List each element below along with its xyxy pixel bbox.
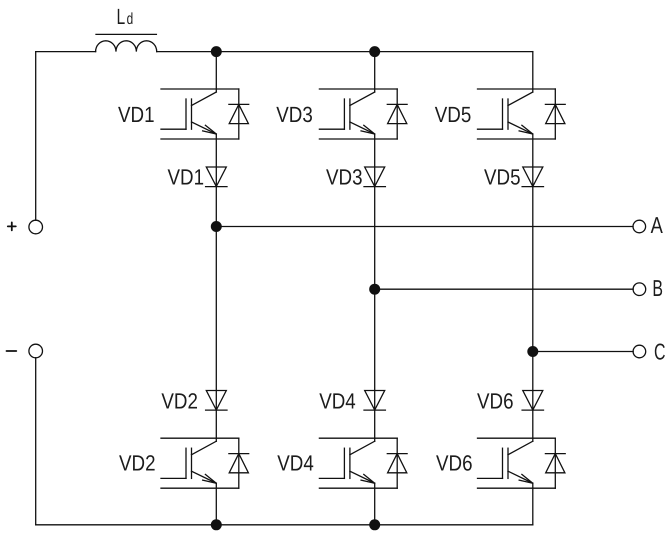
terminal + circle xyxy=(29,220,43,234)
svg-text:VD1: VD1 xyxy=(168,164,205,189)
junction top rail leg2 xyxy=(369,46,380,57)
wire leg2 collector from top rail xyxy=(374,52,376,92)
polarity + sign xyxy=(8,222,16,230)
transistor VD3 (IGBT with antiparallel diode) xyxy=(319,89,407,139)
svg-text:VD3: VD3 xyxy=(326,164,363,189)
junction bottom rail leg1 xyxy=(211,519,222,530)
wire leg3 collector from top rail xyxy=(532,52,534,92)
wire bottom rail xyxy=(36,524,533,526)
transistor VD1 (IGBT with antiparallel diode) xyxy=(161,89,249,139)
wire leg1 emitter through diodes and node A to IGBT VD2 xyxy=(215,134,217,441)
svg-text:VD5: VD5 xyxy=(435,102,472,127)
diode VD3 (series) xyxy=(364,167,385,187)
svg-text:VD6: VD6 xyxy=(477,388,514,413)
wire phase A output xyxy=(216,226,633,228)
transistor VD6 (IGBT with antiparallel diode) xyxy=(478,438,566,488)
node A junction xyxy=(211,221,222,232)
diode VD5 (series) xyxy=(522,167,543,187)
wire leg2 emitter through diodes and node B to IGBT VD4 xyxy=(374,134,376,441)
wire left positive branch xyxy=(35,52,37,221)
svg-text:C: C xyxy=(654,338,666,364)
svg-text:VD6: VD6 xyxy=(436,451,473,476)
wire phase C output xyxy=(533,351,633,353)
terminal B circle xyxy=(633,283,646,296)
transistor VD4 (IGBT with antiparallel diode) xyxy=(319,438,407,488)
svg-text:VD5: VD5 xyxy=(484,164,521,189)
wire leg2 emitter VD4 to bottom rail xyxy=(374,483,376,525)
transistor VD5 (IGBT with antiparallel diode) xyxy=(478,89,566,139)
svg-text:VD2: VD2 xyxy=(161,388,198,413)
diode VD2 (series) xyxy=(206,391,227,411)
diode VD1 (series) xyxy=(206,167,227,187)
junction bottom rail leg2 xyxy=(369,519,380,530)
inductor Ld xyxy=(96,41,157,52)
wire leg1 collector from top rail xyxy=(215,52,217,92)
wire top rail left segment xyxy=(36,51,96,53)
svg-text:VD3: VD3 xyxy=(276,102,313,127)
svg-text:B: B xyxy=(652,275,663,301)
diode VD6 (series) xyxy=(522,391,543,411)
node C junction xyxy=(527,346,538,357)
wire left negative branch xyxy=(35,358,37,525)
svg-text:A: A xyxy=(651,212,664,238)
terminal - circle xyxy=(29,344,43,358)
svg-text:L: L xyxy=(117,4,126,29)
polarity - sign xyxy=(7,350,17,352)
wire leg3 emitter VD6 to bottom rail xyxy=(532,483,534,525)
wire leg3 emitter through diodes and node C to IGBT VD6 xyxy=(532,134,534,441)
wire phase B output xyxy=(375,288,633,290)
transistor VD2 (IGBT with antiparallel diode) xyxy=(161,438,249,488)
svg-text:d: d xyxy=(127,11,134,28)
diode VD4 (series) xyxy=(364,391,385,411)
terminal A circle xyxy=(633,220,646,233)
wire top rail xyxy=(157,51,533,53)
terminal C circle xyxy=(633,345,646,358)
svg-text:VD4: VD4 xyxy=(319,388,356,413)
wire leg1 emitter VD2 to bottom rail xyxy=(215,483,217,525)
inductor Ld core bar xyxy=(96,33,156,35)
svg-text:VD1: VD1 xyxy=(118,102,155,127)
svg-text:VD4: VD4 xyxy=(277,451,314,476)
node B junction xyxy=(369,284,380,295)
junction top rail leg1 xyxy=(211,46,222,57)
svg-text:VD2: VD2 xyxy=(119,451,156,476)
